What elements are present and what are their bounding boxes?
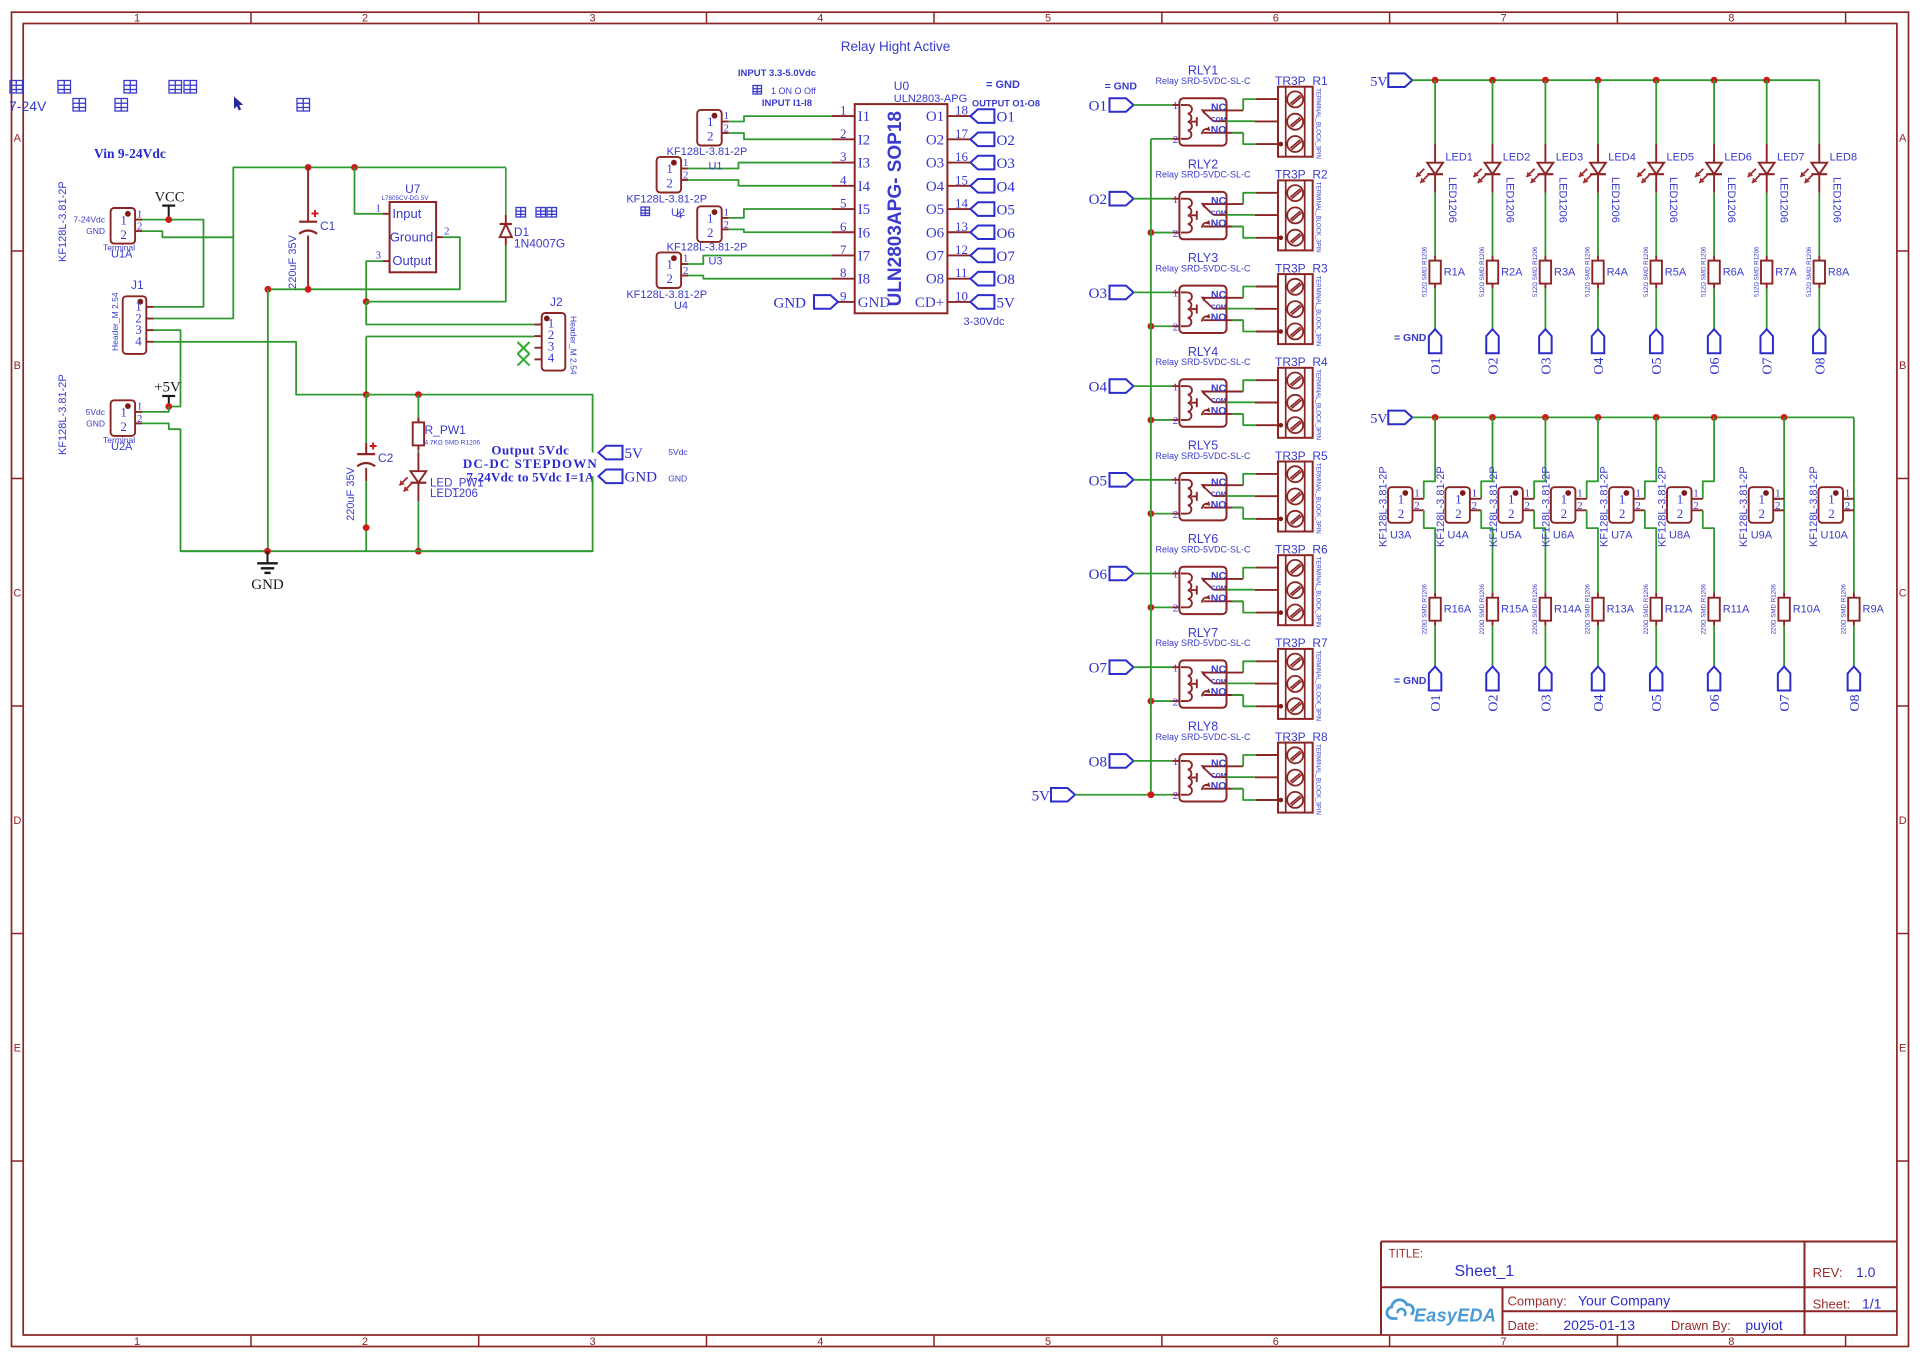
- svg-text:R15A: R15A: [1501, 604, 1529, 616]
- svg-text:220uF 35V: 220uF 35V: [287, 234, 299, 288]
- svg-text:= GND: = GND: [1105, 81, 1138, 93]
- resistor R2A 512: [1479, 246, 1523, 297]
- svg-text:7-24Vdc to 5Vdc I=1A: 7-24Vdc to 5Vdc I=1A: [466, 470, 594, 485]
- svg-text:NC: NC: [1211, 383, 1227, 395]
- wire bus to U5A pin1: [1534, 417, 1545, 498]
- svg-text:B: B: [14, 360, 21, 372]
- diode D1 1N4007G: [500, 167, 566, 250]
- wire bus to LED4: [1597, 80, 1599, 144]
- svg-text:B: B: [1899, 360, 1906, 372]
- svg-text:GND: GND: [858, 295, 891, 311]
- svg-text:A: A: [14, 132, 22, 144]
- junction GND column top: [265, 286, 272, 293]
- junction LED bus col 3: [1542, 77, 1549, 84]
- junction connector bus col 2: [1489, 414, 1496, 421]
- svg-text:1: 1: [134, 1336, 140, 1348]
- wire U4 pin2 to I8: [688, 276, 832, 279]
- svg-text:O2: O2: [1089, 192, 1107, 208]
- wire R5A to O5 flag: [1655, 289, 1657, 330]
- svg-text:1: 1: [707, 114, 714, 129]
- no-connect J2 pin4: [518, 354, 530, 366]
- svg-text:Relay SRD-5VDC-SL-C: Relay SRD-5VDC-SL-C: [1155, 545, 1251, 555]
- svg-text:NO: NO: [1211, 593, 1227, 605]
- svg-text:= GND: = GND: [1394, 675, 1427, 687]
- wire RLY2 NC to terminal pin1: [1243, 193, 1256, 204]
- wire R16A to O1 flag: [1434, 626, 1436, 667]
- wire O6 flag to relay pin1: [1134, 573, 1173, 575]
- svg-text:4: 4: [817, 1336, 823, 1348]
- wire RLY1 COM to terminal pin2: [1227, 120, 1255, 122]
- svg-text:1: 1: [1398, 492, 1405, 507]
- svg-text:COM: COM: [1211, 398, 1227, 405]
- wire O4 flag to relay pin1: [1134, 385, 1173, 387]
- svg-text:TERMINAL_BLOCK_3PIN: TERMINAL_BLOCK_3PIN: [1315, 369, 1321, 440]
- wire R7A to O7 flag: [1766, 289, 1768, 330]
- wire J1 pin4 to 5V bus: [154, 342, 367, 395]
- output flag O4 at LED array: [1592, 329, 1607, 374]
- junction 5V bus at RLY6 pin2: [1148, 604, 1155, 611]
- svg-text:2: 2: [1619, 506, 1626, 521]
- resistor R8A 512: [1806, 246, 1850, 297]
- svg-text:2: 2: [1635, 500, 1641, 512]
- svg-text:NC: NC: [1211, 289, 1227, 301]
- svg-text:TERMINAL_BLOCK_3PIN: TERMINAL_BLOCK_3PIN: [1315, 557, 1321, 628]
- svg-text:ULN2803APG- SOP18: ULN2803APG- SOP18: [885, 111, 906, 306]
- svg-text:NC: NC: [1211, 757, 1227, 769]
- svg-text:2: 2: [1173, 509, 1179, 521]
- wire RLY8 NO to terminal pin3: [1232, 789, 1256, 800]
- svg-text:2: 2: [137, 413, 143, 425]
- svg-text:7: 7: [1500, 1336, 1506, 1348]
- svg-text:5Vdc: 5Vdc: [86, 407, 106, 417]
- svg-text:Company:: Company:: [1508, 1294, 1567, 1309]
- terminal block TR3P_R2: [1275, 168, 1328, 253]
- svg-text:Relay SRD-5VDC-SL-C: Relay SRD-5VDC-SL-C: [1155, 357, 1251, 367]
- connector U5A KF128L-3.81-2P: [1488, 466, 1534, 547]
- svg-text:1: 1: [1173, 662, 1179, 674]
- svg-text:9: 9: [840, 288, 847, 303]
- relay RLY3 SRD-5VDC-SL-C: [1155, 251, 1251, 333]
- resistor R5A 512: [1643, 246, 1687, 297]
- svg-text:1: 1: [1561, 492, 1568, 507]
- resistor R13A 220: [1585, 583, 1635, 634]
- wire RLY6 NO to terminal pin3: [1232, 601, 1256, 612]
- svg-text:1: 1: [1525, 488, 1531, 500]
- svg-text:O7: O7: [997, 249, 1016, 265]
- svg-text:O5: O5: [1650, 695, 1665, 712]
- led LED_PW1 LED1206: [399, 450, 483, 551]
- resistor R16A 220: [1422, 583, 1472, 634]
- svg-text:R1A: R1A: [1444, 267, 1466, 279]
- wire LED2 to R2A: [1492, 193, 1494, 256]
- wire ground rail: [181, 550, 593, 552]
- svg-text:1: 1: [1845, 488, 1851, 500]
- svg-text:O6: O6: [1089, 567, 1108, 583]
- svg-text:U6A: U6A: [1553, 530, 1575, 542]
- svg-text:= GND: = GND: [986, 79, 1020, 91]
- svg-text:1: 1: [1758, 492, 1765, 507]
- input flag O6 to RLY6: [1089, 567, 1134, 583]
- svg-text:COM: COM: [1211, 679, 1227, 686]
- svg-text:1: 1: [1173, 288, 1179, 300]
- wire U4 pin1 to I7: [688, 255, 832, 264]
- svg-text:2: 2: [1173, 603, 1179, 615]
- svg-text:GND: GND: [668, 474, 687, 484]
- svg-text:1: 1: [1693, 488, 1699, 500]
- svg-text:LED1206: LED1206: [1446, 177, 1458, 223]
- svg-text:1.0: 1.0: [1856, 1264, 1876, 1280]
- wire bus to LED6: [1713, 80, 1715, 144]
- led LED3 LED1206: [1526, 144, 1583, 223]
- led LED2 LED1206: [1474, 144, 1531, 223]
- wire U2 pin1 to I3: [688, 163, 832, 169]
- wire O7 flag to relay pin1: [1134, 666, 1173, 668]
- svg-text:2: 2: [1173, 790, 1179, 802]
- svg-text:O5: O5: [926, 202, 944, 218]
- svg-text:512Ω SMD R1206: 512Ω SMD R1206: [1643, 246, 1650, 297]
- svg-text:4: 4: [676, 210, 682, 222]
- input flag O5 to RLY5: [1089, 473, 1134, 489]
- wire RLY3 COM to terminal pin2: [1227, 308, 1255, 310]
- svg-text:220uF 35V: 220uF 35V: [345, 466, 357, 520]
- junction connector bus col 7: [1781, 414, 1788, 421]
- relay RLY8 SRD-5VDC-SL-C: [1155, 720, 1251, 802]
- output flag O1 at LED array: [1429, 329, 1444, 374]
- svg-text:U0: U0: [894, 79, 910, 93]
- svg-text:1: 1: [707, 211, 714, 226]
- junction connector bus col 6: [1711, 414, 1718, 421]
- svg-text:8: 8: [1728, 1336, 1734, 1348]
- svg-text:O7: O7: [1778, 695, 1793, 712]
- output flag 5V at DC-DC: [599, 446, 644, 462]
- led LED8 LED1206: [1800, 144, 1857, 223]
- svg-text:I6: I6: [858, 225, 871, 241]
- svg-text:512Ω SMD R1206: 512Ω SMD R1206: [1806, 246, 1813, 297]
- svg-text:3: 3: [376, 250, 382, 262]
- svg-text:NO: NO: [1211, 311, 1227, 323]
- svg-text:LED1206: LED1206: [430, 488, 478, 500]
- junction 5V bus at RLY4 pin2: [1148, 417, 1155, 424]
- svg-text:R8A: R8A: [1828, 267, 1850, 279]
- wire 5V bus to RLY7 pin2: [1151, 700, 1172, 702]
- svg-text:2: 2: [840, 126, 847, 141]
- svg-text:1: 1: [1619, 492, 1626, 507]
- svg-text:512Ω SMD R1206: 512Ω SMD R1206: [1532, 246, 1539, 297]
- led LED7 LED1206: [1748, 144, 1805, 223]
- wire 5V node to J2 pins: [366, 302, 534, 395]
- svg-text:LED2: LED2: [1503, 152, 1531, 164]
- svg-text:NO: NO: [1211, 780, 1227, 792]
- svg-text:I8: I8: [858, 272, 871, 288]
- svg-text:U7A: U7A: [1611, 530, 1633, 542]
- text note 1 ON O Off: [753, 86, 816, 97]
- svg-text:D: D: [1899, 815, 1907, 827]
- svg-text:O1: O1: [1089, 99, 1107, 115]
- svg-text:17: 17: [955, 126, 969, 141]
- input flag O8 to RLY8: [1089, 754, 1134, 770]
- wire O3 flag to relay pin1: [1134, 291, 1173, 293]
- svg-text:2: 2: [723, 219, 729, 231]
- svg-text:C2: C2: [378, 451, 394, 465]
- svg-text:GND: GND: [625, 470, 658, 486]
- svg-text:O6: O6: [1708, 358, 1723, 375]
- svg-text:Relay SRD-5VDC-SL-C: Relay SRD-5VDC-SL-C: [1155, 263, 1251, 273]
- wire RLY8 COM to terminal pin2: [1227, 776, 1255, 778]
- svg-text:INPUT I1-I8: INPUT I1-I8: [762, 98, 812, 109]
- wire 5V flag to bus: [1075, 794, 1151, 796]
- svg-text:Ground: Ground: [390, 229, 433, 244]
- svg-text:COM: COM: [1211, 772, 1227, 779]
- svg-text:R_PW1: R_PW1: [425, 423, 467, 437]
- svg-text:Header_M 2.54: Header_M 2.54: [110, 292, 120, 351]
- junction LED bus col 6: [1711, 77, 1718, 84]
- svg-text:C1: C1: [320, 219, 336, 233]
- svg-text:GND: GND: [251, 577, 284, 593]
- svg-text:Your Company: Your Company: [1578, 1293, 1670, 1309]
- capacitor C2 220uF 35V: [345, 395, 394, 552]
- svg-text:5V: 5V: [997, 295, 1016, 311]
- wire 5V bus to RLY2 pin2: [1151, 232, 1172, 234]
- svg-text:2: 2: [683, 265, 689, 277]
- junction 5V bus at R_PW1: [415, 391, 422, 398]
- output flag O8 at LED array: [1813, 329, 1828, 374]
- output flag O3 at LED array: [1539, 329, 1554, 374]
- svg-text:KF128L-3.81-2P: KF128L-3.81-2P: [626, 194, 707, 206]
- text note CJK line 2 7-24V: [9, 97, 310, 115]
- svg-text:2: 2: [1561, 506, 1568, 521]
- svg-text:4.7KΩ SMD R1206: 4.7KΩ SMD R1206: [425, 440, 481, 447]
- svg-text:7-24V: 7-24V: [9, 98, 47, 114]
- svg-text:Vin 9-24Vdc: Vin 9-24Vdc: [94, 146, 166, 161]
- svg-text:2025-01-13: 2025-01-13: [1563, 1317, 1635, 1333]
- svg-text:LED6: LED6: [1724, 152, 1752, 164]
- svg-text:OUTPUT O1-O8: OUTPUT O1-O8: [972, 99, 1040, 109]
- wire RLY1 NC to terminal pin1: [1243, 99, 1256, 110]
- wire RLY8 NC to terminal pin1: [1243, 755, 1256, 766]
- wire U2 pin2 to I4: [688, 180, 832, 186]
- wire RLY4 NO to terminal pin3: [1232, 414, 1256, 425]
- wire bus through U10A: [1853, 417, 1855, 592]
- svg-text:U2A: U2A: [111, 441, 133, 453]
- wire relay 5V bus: [1150, 139, 1152, 795]
- wire R11A to O6 flag: [1713, 626, 1715, 667]
- svg-text:2: 2: [1173, 134, 1179, 146]
- svg-text:E: E: [14, 1042, 21, 1054]
- svg-text:NO: NO: [1211, 124, 1227, 136]
- wire R8A to O8 flag: [1818, 289, 1820, 330]
- svg-text:GND: GND: [86, 226, 105, 236]
- svg-text:TERMINAL_BLOCK_3PIN: TERMINAL_BLOCK_3PIN: [1315, 744, 1321, 815]
- wire RLY7 NC to terminal pin1: [1243, 661, 1256, 672]
- svg-text:A: A: [1899, 132, 1907, 144]
- svg-text:U1: U1: [708, 161, 722, 173]
- svg-text:TERMINAL_BLOCK_3PIN: TERMINAL_BLOCK_3PIN: [1315, 88, 1321, 159]
- svg-text:CD+: CD+: [915, 295, 944, 311]
- svg-text:2: 2: [707, 129, 714, 144]
- wire bus to U6A pin1: [1587, 417, 1598, 498]
- svg-text:NO: NO: [1211, 499, 1227, 511]
- junction connector bus col 5: [1653, 414, 1660, 421]
- svg-text:512Ω SMD R1206: 512Ω SMD R1206: [1753, 246, 1760, 297]
- text note CJK line 1: [10, 81, 197, 94]
- svg-text:COM: COM: [1211, 304, 1227, 311]
- wire LED 5V bus: [1412, 79, 1819, 81]
- svg-text:R3A: R3A: [1554, 267, 1576, 279]
- svg-text:O2: O2: [1487, 695, 1502, 712]
- wire 5V bus to RLY4 pin2: [1151, 419, 1172, 421]
- header J2: [535, 295, 579, 375]
- svg-text:2: 2: [1577, 500, 1583, 512]
- relay RLY1 SRD-5VDC-SL-C: [1155, 64, 1251, 146]
- wire bus to LED1: [1434, 80, 1436, 144]
- svg-text:O6: O6: [1708, 695, 1723, 712]
- output flag O7 at connector array: [1778, 667, 1793, 712]
- svg-text:R16A: R16A: [1444, 604, 1472, 616]
- output flag O3 at connector array: [1539, 667, 1554, 712]
- svg-text:U9A: U9A: [1751, 530, 1773, 542]
- svg-text:R12A: R12A: [1665, 604, 1693, 616]
- relay RLY2 SRD-5VDC-SL-C: [1155, 157, 1251, 239]
- wire GND column: [267, 289, 269, 551]
- wire R1A to O1 flag: [1434, 289, 1436, 330]
- input flag O3 to RLY3: [1089, 286, 1134, 302]
- terminal block TR3P_R7: [1275, 636, 1328, 721]
- wire LED3 to R3A: [1544, 193, 1546, 256]
- svg-text:10: 10: [955, 288, 968, 303]
- junction +5V: [165, 403, 172, 410]
- terminal block TR3P_R3: [1275, 261, 1328, 346]
- svg-text:2: 2: [1828, 506, 1835, 521]
- relay RLY5 SRD-5VDC-SL-C: [1155, 439, 1251, 521]
- svg-text:KF128L-3.81-2P: KF128L-3.81-2P: [57, 374, 69, 455]
- junction 5V bus bottom: [1148, 791, 1155, 798]
- resistor R6A 512: [1701, 246, 1745, 297]
- wire U5A pin2 to resistor: [1534, 510, 1545, 593]
- svg-text:O1: O1: [1429, 358, 1444, 375]
- wire LED4 to R4A: [1597, 193, 1599, 256]
- wire R15A to O2 flag: [1492, 626, 1494, 667]
- svg-text:Input: Input: [392, 206, 421, 221]
- junction LED bus col 2: [1489, 77, 1496, 84]
- led LED1 LED1206: [1416, 144, 1473, 223]
- svg-text:Date:: Date:: [1508, 1318, 1539, 1333]
- svg-text:1: 1: [840, 103, 847, 118]
- svg-text:1: 1: [1828, 492, 1835, 507]
- svg-text:18: 18: [955, 103, 968, 118]
- svg-text:220Ω SMD R1206: 220Ω SMD R1206: [1479, 583, 1486, 634]
- svg-text:O4: O4: [997, 179, 1016, 195]
- svg-text:C: C: [13, 587, 21, 599]
- svg-text:KF128L-3.81-2P: KF128L-3.81-2P: [667, 242, 748, 254]
- svg-text:Relay SRD-5VDC-SL-C: Relay SRD-5VDC-SL-C: [1155, 732, 1251, 742]
- wire U1 pin1 to I1: [729, 116, 832, 121]
- svg-text:puyiot: puyiot: [1745, 1317, 1782, 1333]
- svg-text:4: 4: [135, 334, 142, 349]
- svg-text:R9A: R9A: [1863, 604, 1885, 616]
- connector U6A KF128L-3.81-2P: [1540, 466, 1586, 547]
- power flag +5V: [154, 380, 181, 407]
- resistor R7A 512: [1753, 246, 1797, 297]
- text label KF128L-3.81-2P U1: [667, 146, 748, 173]
- svg-text:Header_M 2.54: Header_M 2.54: [569, 316, 579, 375]
- svg-text:8: 8: [840, 265, 847, 280]
- terminal block TR3P_R4: [1275, 355, 1328, 440]
- wire U2A pin1 to +5V: [142, 407, 169, 412]
- svg-text:2: 2: [723, 123, 729, 135]
- svg-text:1: 1: [1455, 492, 1462, 507]
- svg-text:I1: I1: [858, 109, 871, 125]
- svg-text:REV:: REV:: [1813, 1265, 1843, 1280]
- svg-text:Drawn By:: Drawn By:: [1671, 1318, 1731, 1333]
- input flag 5V at relay bus bottom: [1032, 788, 1075, 805]
- svg-text:2: 2: [362, 12, 368, 24]
- svg-text:GND: GND: [86, 419, 105, 429]
- svg-text:I3: I3: [858, 156, 871, 172]
- led LED5 LED1206: [1637, 144, 1694, 223]
- svg-text:LED1206: LED1206: [1778, 177, 1790, 223]
- text label KF128L-3.81-2P U4: [626, 289, 707, 312]
- svg-text:J2: J2: [550, 295, 563, 309]
- junction 5V bus left: [363, 391, 370, 398]
- svg-text:KF128L-3.81-2P: KF128L-3.81-2P: [1540, 466, 1552, 547]
- svg-text:I7: I7: [858, 248, 871, 264]
- svg-text:U3: U3: [708, 256, 722, 268]
- wire RLY4 COM to terminal pin2: [1227, 401, 1255, 403]
- wire 5V bus to output flag: [366, 395, 592, 453]
- wire bus to U4A pin1: [1481, 417, 1492, 498]
- wire U3 pin1 to I5: [729, 209, 832, 218]
- led LED4 LED1206: [1579, 144, 1636, 223]
- svg-text:2: 2: [444, 226, 450, 238]
- resistor R15A 220: [1479, 583, 1529, 634]
- svg-text:KF128L-3.81-2P: KF128L-3.81-2P: [1488, 466, 1500, 547]
- connector U1 KF128L-3.81-2P input 1-2: [697, 110, 729, 146]
- text label KF128L-3.81-2P U3: [667, 242, 748, 268]
- svg-text:O3: O3: [926, 156, 944, 172]
- svg-text:I5: I5: [858, 202, 871, 218]
- wire 5V bus to RLY3 pin2: [1151, 325, 1172, 327]
- svg-text:O8: O8: [1089, 754, 1107, 770]
- svg-text:O1: O1: [997, 110, 1015, 126]
- wire U7 output to 5V node: [366, 261, 382, 302]
- svg-text:1: 1: [137, 208, 143, 220]
- svg-text:NO: NO: [1211, 686, 1227, 698]
- svg-text:KF128L-3.81-2P: KF128L-3.81-2P: [1738, 466, 1750, 547]
- wire U1A pin1 to VCC to J1 pin1: [142, 220, 204, 307]
- svg-text:1: 1: [1173, 475, 1179, 487]
- svg-text:6: 6: [1273, 1336, 1279, 1348]
- svg-text:LED1206: LED1206: [1504, 177, 1516, 223]
- svg-text:Relay SRD-5VDC-SL-C: Relay SRD-5VDC-SL-C: [1155, 170, 1251, 180]
- connector U7A KF128L-3.81-2P: [1599, 466, 1645, 547]
- junction LED bus col 4: [1595, 77, 1602, 84]
- svg-text:Sheet:: Sheet:: [1813, 1297, 1851, 1312]
- svg-text:Relay SRD-5VDC-SL-C: Relay SRD-5VDC-SL-C: [1155, 76, 1251, 86]
- wire R9A to O8 flag: [1853, 626, 1855, 667]
- wire bus to U7A pin1: [1645, 417, 1656, 498]
- svg-text:U10A: U10A: [1821, 530, 1849, 542]
- output flag O5 at LED array: [1650, 329, 1665, 374]
- svg-text:2: 2: [120, 419, 127, 434]
- svg-text:COM: COM: [1211, 491, 1227, 498]
- svg-text:R6A: R6A: [1723, 267, 1745, 279]
- wire R6A to O6 flag: [1713, 289, 1715, 330]
- svg-text:5V: 5V: [625, 446, 644, 462]
- svg-text:D: D: [13, 815, 21, 827]
- input flag GND at ULN pin9: [774, 295, 839, 311]
- svg-text:1: 1: [1508, 492, 1515, 507]
- resistor R9A 220: [1841, 583, 1885, 634]
